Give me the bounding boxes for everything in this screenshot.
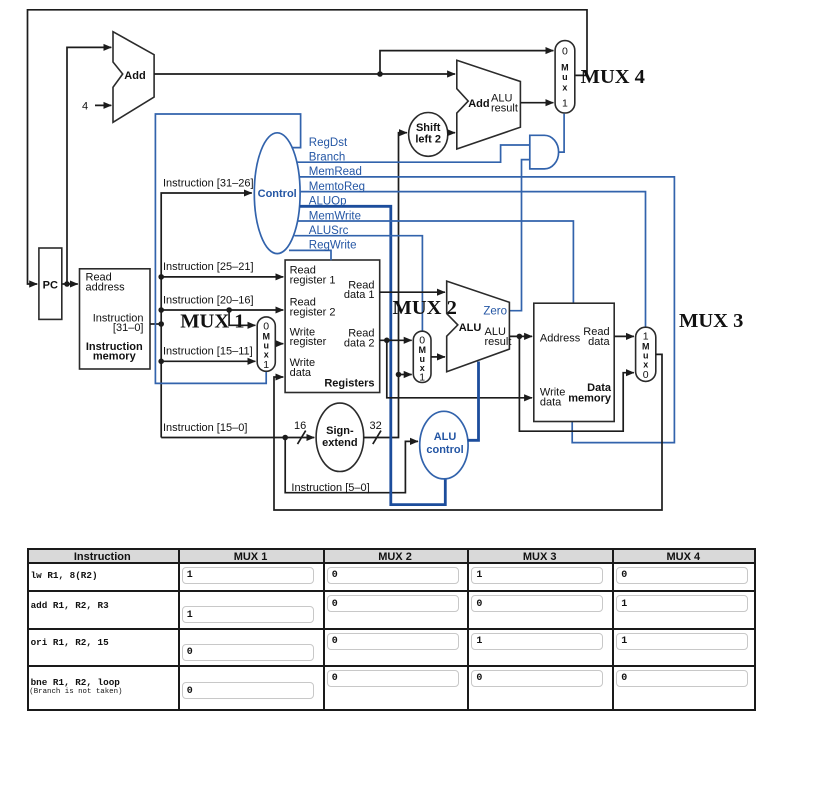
wire: shift left 2 output to Add [448,132,455,134]
wire: Add output PC+4 to second adder [154,73,455,75]
alu control oval [420,411,468,479]
svg-text:Instruction [15–11]: Instruction [15–11] [163,346,253,358]
control unit oval [254,133,300,254]
wire: sign-extend output up to shift left 2 [364,133,407,438]
wire: instruction memory output to instruction bus [150,323,161,325]
wire: Instruction [20-16] branch down to MUX1 input 0 [229,310,255,325]
svg-text:Shift: Shift [416,122,441,134]
svg-text:RegDst: RegDst [309,137,348,149]
svg-text:u: u [562,72,568,82]
wire: Read data 2 to MUX2 input 0 [380,339,412,341]
wire: MemRead under data memory [299,177,675,443]
wire: branch to MUX2 input 1 [399,374,412,376]
svg-text:Add: Add [124,70,145,82]
svg-text:left 2: left 2 [415,134,441,146]
node: junction dot at PC output [64,281,70,287]
svg-text:Instruction [31–26]: Instruction [31–26] [163,178,254,190]
node: dot instruction bus at memory output [158,321,164,327]
svg-text:Instruction [20–16]: Instruction [20–16] [163,294,254,306]
svg-text:0: 0 [562,45,568,57]
svg-text:x: x [264,350,269,360]
svg-text:register: register [290,336,327,348]
svg-text:RegWrite: RegWrite [309,240,357,252]
bus width slash 16 [298,431,306,445]
svg-text:result: result [485,336,512,348]
svg-text:1: 1 [263,359,269,371]
wire: RegDst loop to MUX1 select [155,114,300,383]
svg-text:0: 0 [643,369,649,381]
svg-text:MUX 1: MUX 1 [180,311,244,333]
wire: MUX1 output to Write register [275,343,283,345]
svg-text:x: x [643,360,648,370]
svg-text:MemRead: MemRead [309,166,362,178]
svg-text:16: 16 [294,420,306,432]
wire: Instruction [20-16] to Read register 2 [161,309,283,311]
wire: Instruction [25-21] to Read register 1 [161,276,283,278]
node: dot read data 2 branch [384,338,390,344]
wire: ALUSrc to MUX2 select [295,236,423,332]
svg-text:memory: memory [568,393,612,405]
svg-text:memory: memory [93,350,137,362]
mux MUX2 (ALU operand select) [413,331,431,382]
svg-text:register 1: register 1 [290,274,336,286]
wire: ALU result bypass to MUX3 input 0 [519,336,634,431]
svg-text:data: data [588,336,610,348]
node: dot on [15-0] at [5-0] branch [282,435,288,441]
svg-text:x: x [562,83,567,93]
svg-text:address: address [86,281,126,293]
registers box [285,260,380,393]
svg-text:ALUOp: ALUOp [309,196,347,208]
wire: Zero from ALU up to and gate [509,160,529,311]
svg-text:ALU: ALU [459,322,482,334]
wire: ALU result to data memory Address [509,335,532,337]
node: dot ALU result [517,334,523,340]
svg-text:PC: PC [43,279,58,291]
mux MUX3 (write back select) [636,327,656,381]
mux MUX1 (write register select) [257,317,275,371]
svg-text:Instruction [15–0]: Instruction [15–0] [163,422,247,434]
node: dot bus y=310 [158,307,164,313]
svg-text:32: 32 [370,420,382,432]
svg-text:register 2: register 2 [290,306,336,318]
svg-text:Instruction [5–0]: Instruction [5–0] [291,482,369,494]
svg-text:Sign-: Sign- [326,425,354,437]
svg-text:MemWrite: MemWrite [309,210,361,222]
wire: Instruction [15-0] to sign-extend [161,437,314,439]
svg-text:ALU: ALU [434,431,457,443]
answer table [27,548,755,712]
adder Add (PC+4) [113,32,154,123]
svg-text:1: 1 [419,372,425,384]
svg-text:Registers: Registers [324,378,374,390]
wire: RegWrite to registers [289,250,331,260]
wire: ALUOp to ALU control (thick) [300,206,446,504]
shift left 2 oval [409,112,448,156]
wire: Read data 2 branch to data memory Write data [387,340,532,398]
wire: Instruction [15-11] to MUX1 input 1 [161,360,255,362]
wire: PC output branch up to Add input [67,47,111,284]
svg-text:1: 1 [562,98,568,110]
node: junction dot on PC+4 line [377,71,383,77]
node: dot bus y=276.9 [158,274,164,280]
wire: MUX2 output to ALU [431,356,445,358]
svg-text:control: control [426,444,463,456]
wire: memory Read data to MUX3 input 1 [614,335,634,337]
svg-text:Address: Address [540,332,581,344]
wire: PC+4 branch up to MUX4 input 0 [380,51,553,74]
wire: and gate output up to MUX4 select [559,114,564,153]
svg-text:result: result [491,103,518,115]
instruction memory box [80,269,151,369]
wire: Branch signal to and gate [297,145,530,162]
svg-text:Zero: Zero [483,306,507,318]
wire: Read data 1 to ALU [380,291,445,293]
wire: Instruction [5-0] to ALU control [285,438,418,493]
adder Add (branch target) [457,60,521,149]
wire: MUX4 output feedback loop to PC input [28,10,588,284]
node: dot on [20-16] branch [226,307,232,313]
svg-text:extend: extend [322,437,357,449]
wire: instruction bus vertical with branch to Control [161,193,252,438]
alu main [447,281,510,372]
svg-text:MemtoReg: MemtoReg [309,181,365,193]
svg-text:MUX 3: MUX 3 [679,310,743,332]
and gate (branch and zero) [530,135,559,169]
bus width slash 32 [373,431,381,445]
register PC [39,248,62,319]
svg-text:data 2: data 2 [344,337,375,349]
svg-text:M: M [561,63,569,73]
wire: constant 4 into Add [95,104,111,106]
wire: MemtoReg to MUX3 select [300,192,646,328]
svg-text:Branch: Branch [309,152,345,164]
wire: ALU control output to ALU select (thick) [468,362,479,441]
wire: MUX3 output return to registers Write data [274,354,662,510]
data memory box [534,303,614,421]
node: dot bus y=361.3 [158,359,164,365]
wire: MemWrite to data memory [298,221,573,304]
svg-text:data 1: data 1 [344,289,375,301]
node: dot sign-extend branch [396,372,402,378]
wire: PC output to Instruction memory Read address [62,283,78,285]
svg-text:4: 4 [82,101,88,113]
svg-text:ALUSrc: ALUSrc [309,225,349,237]
svg-text:Add: Add [468,98,489,110]
mux MUX4 (PC source select) [555,41,575,113]
svg-text:MUX 4: MUX 4 [581,66,645,88]
svg-text:[31–0]: [31–0] [113,322,144,334]
svg-text:data: data [290,367,312,379]
svg-text:Control: Control [258,188,297,200]
sign-extend oval [316,403,364,471]
wire: branch adder output to MUX4 input 1 [520,102,553,104]
svg-text:data: data [540,397,562,409]
svg-text:Instruction [25–21]: Instruction [25–21] [163,261,254,273]
